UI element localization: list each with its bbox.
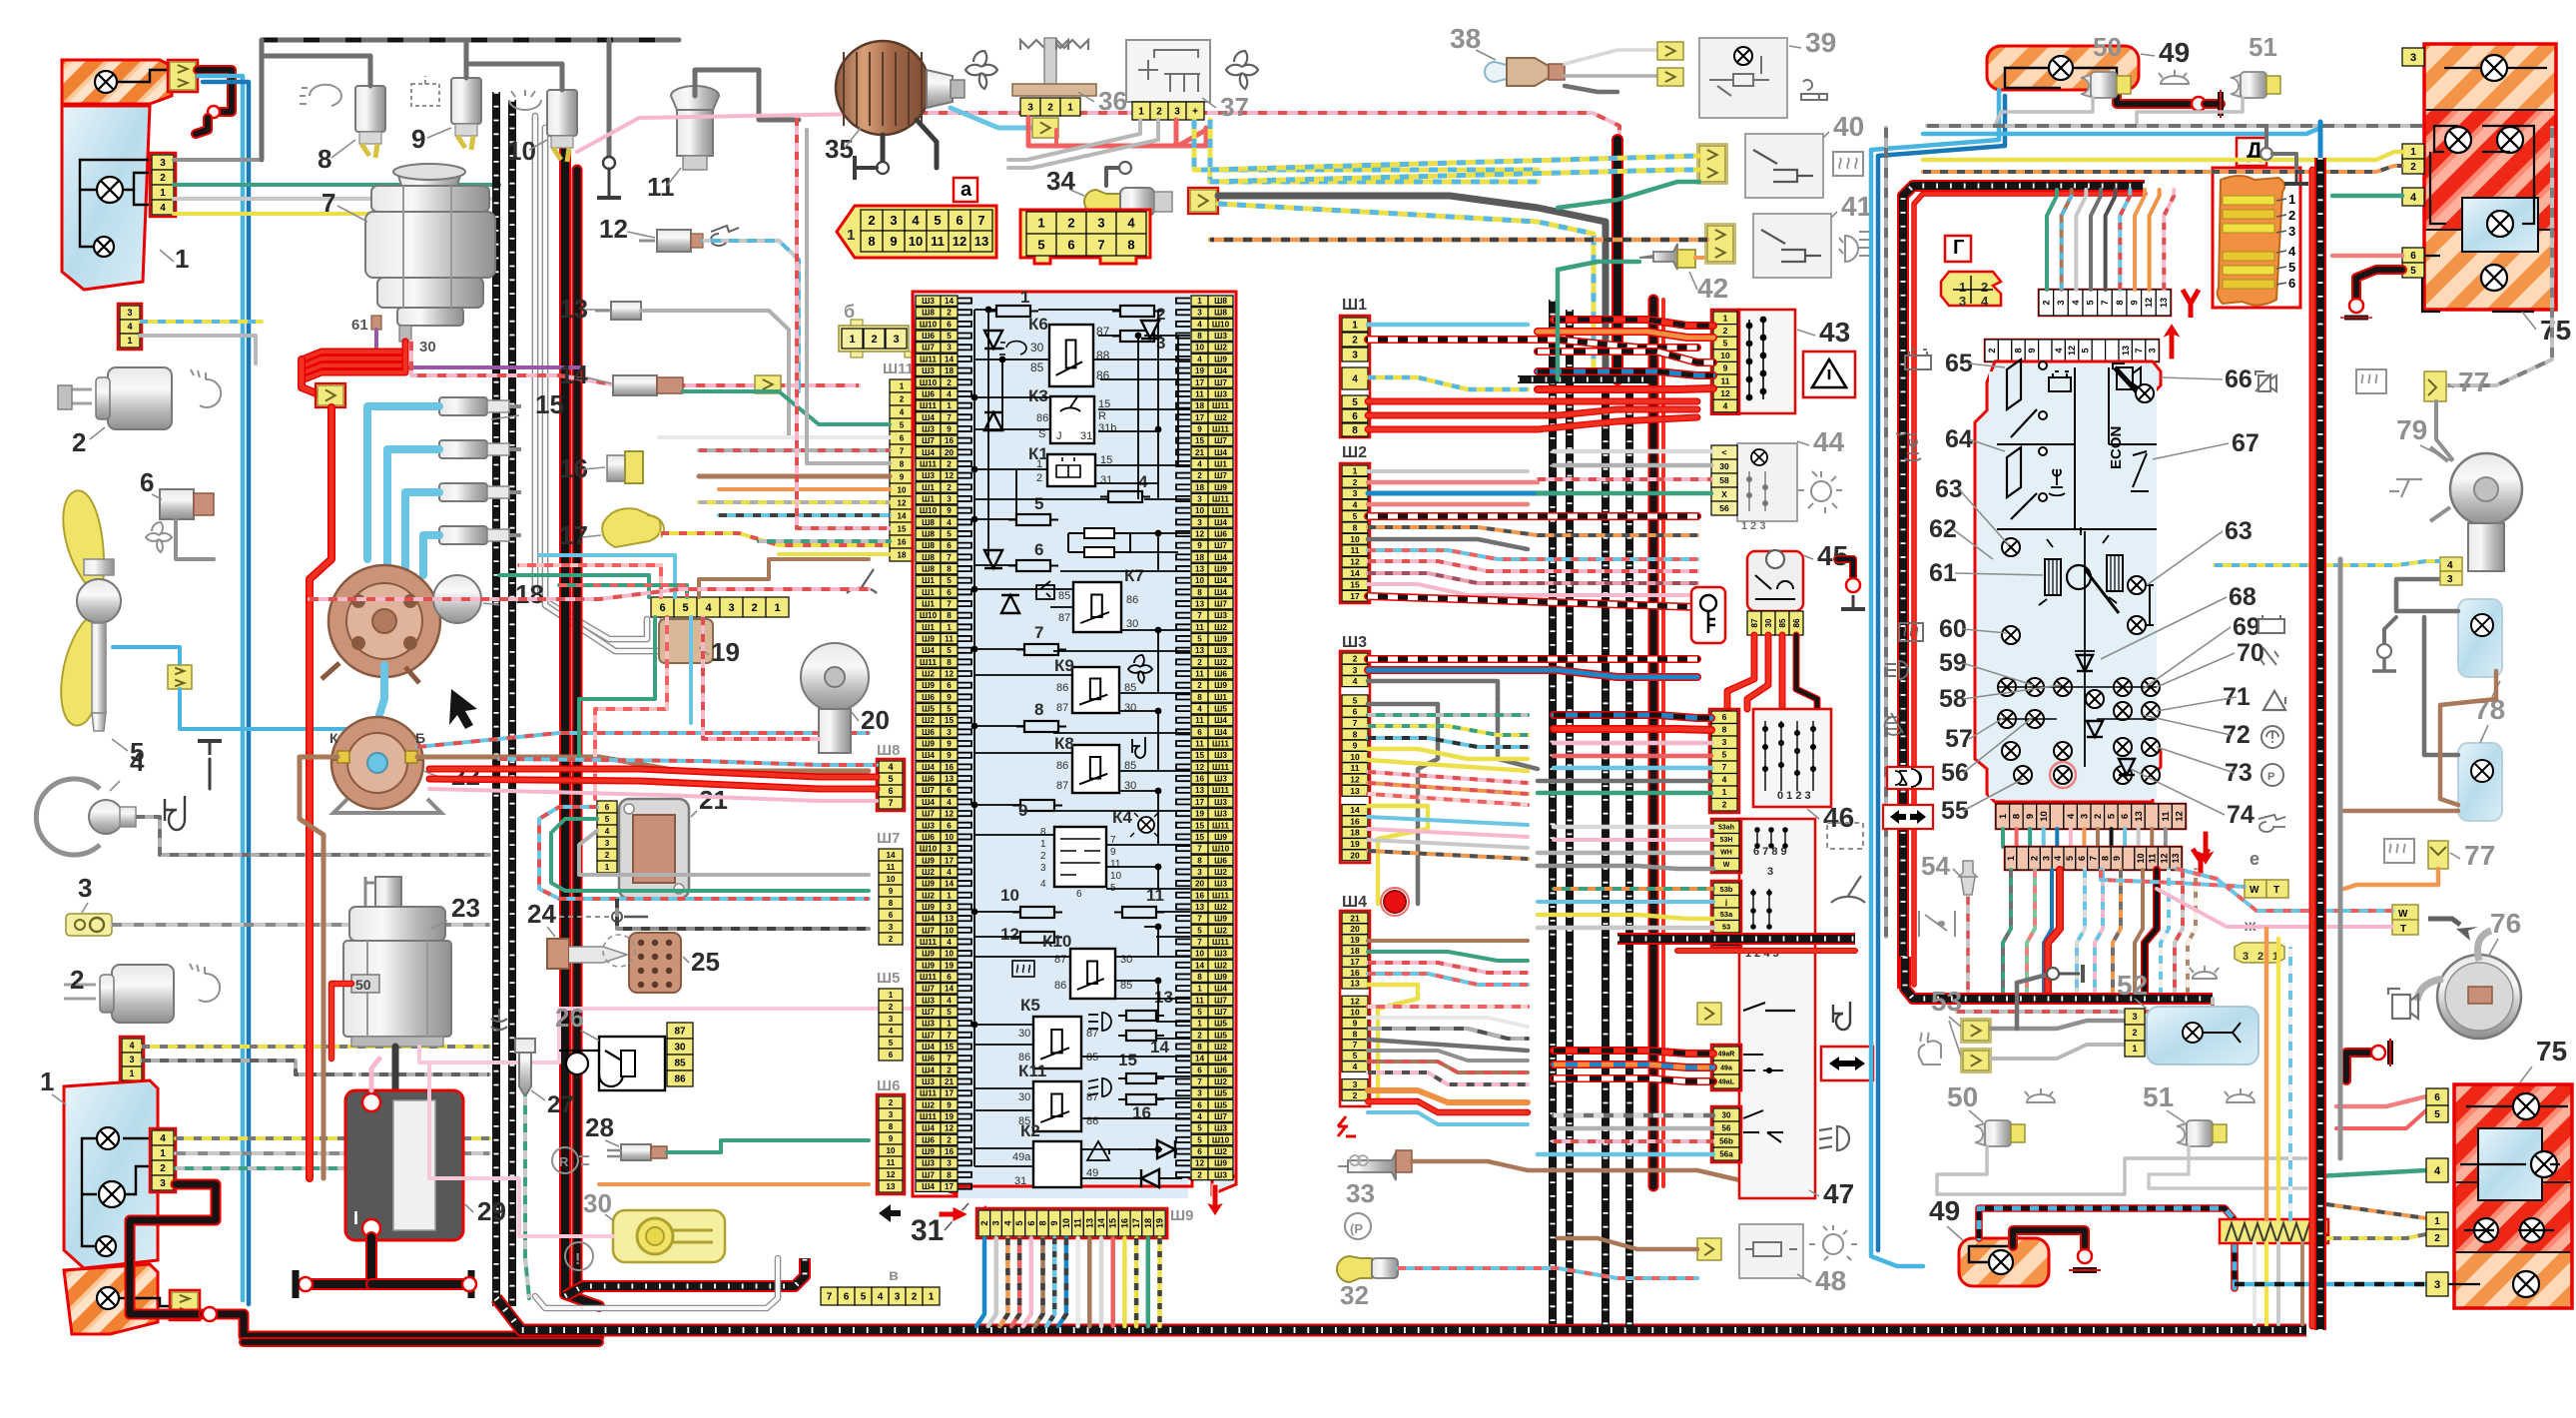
cluster diodes	[2077, 655, 2093, 671]
svg-text:X: X	[1721, 489, 1727, 499]
cluster wire harness from bottom strip down to e strip	[2001, 829, 2005, 847]
icon hazard K2	[1087, 1141, 1109, 1160]
fuse 7	[1016, 649, 1066, 651]
svg-text:Ш3: Ш3	[922, 471, 935, 480]
fog lamp 2 (top)	[108, 367, 172, 429]
svg-text:4: 4	[947, 518, 952, 527]
svg-text:Ш7: Ш7	[922, 344, 935, 353]
svg-text:7: 7	[977, 213, 984, 228]
svg-text:65: 65	[1945, 350, 1973, 377]
svg-text:18: 18	[898, 550, 907, 559]
wire into 48 brown	[1558, 1238, 1697, 1249]
svg-text:2: 2	[947, 309, 952, 318]
svg-text:4: 4	[947, 798, 952, 807]
svg-text:5: 5	[947, 576, 952, 585]
svg-text:41: 41	[1841, 191, 1872, 222]
svg-text:6: 6	[2434, 1092, 2440, 1103]
svg-text:1: 1	[1197, 1020, 1202, 1029]
svg-text:Ш7: Ш7	[922, 1170, 935, 1179]
svg-text:13: 13	[1154, 988, 1173, 1007]
47: wiper section pins	[1711, 819, 1741, 873]
svg-text:3: 3	[160, 1178, 166, 1189]
svg-text:5: 5	[2081, 348, 2091, 353]
svg-text:10: 10	[1195, 344, 1205, 353]
svg-text:31: 31	[1014, 1175, 1026, 1187]
svg-text:3: 3	[947, 494, 952, 503]
svg-text:6: 6	[140, 467, 154, 497]
svg-text:62: 62	[1929, 515, 1957, 543]
svg-text:Ш6: Ш6	[922, 728, 935, 737]
svg-text:Ш11: Ш11	[920, 1089, 937, 1098]
svg-text:21: 21	[1195, 448, 1205, 457]
svg-text:12: 12	[953, 234, 966, 249]
fuse 15	[1118, 1077, 1164, 1079]
svg-text:3: 3	[2243, 951, 2249, 963]
Y symbol right of strip	[2183, 290, 2199, 318]
svg-text:4: 4	[1127, 216, 1135, 231]
connector >> on pink wire	[755, 375, 781, 393]
wires into 75 top	[1923, 152, 2402, 160]
svg-text:7: 7	[900, 446, 905, 455]
svg-text:7: 7	[947, 1031, 952, 1040]
svg-text:6: 6	[947, 588, 952, 597]
svg-text:63: 63	[2225, 517, 2253, 545]
svg-text:Ш11: Ш11	[1212, 424, 1229, 433]
fuse 12	[1012, 937, 1062, 939]
svg-text:8: 8	[318, 144, 331, 174]
svg-text:5: 5	[1197, 635, 1202, 644]
svg-text:9: 9	[889, 1134, 894, 1143]
fuel icon + bulb 66 area	[2113, 363, 2141, 389]
svg-text:3: 3	[895, 1292, 901, 1303]
svg-text:5: 5	[947, 646, 952, 655]
svg-text:е: е	[2250, 849, 2259, 869]
svg-text:1: 1	[160, 1148, 166, 1159]
wires into 47 turn signal section (red/blue bundle)	[1554, 1051, 1713, 1054]
svg-text:5: 5	[934, 213, 941, 228]
fan icon by 37	[1226, 51, 1258, 89]
svg-text:13: 13	[974, 234, 988, 249]
svg-text:Ш11: Ш11	[1212, 821, 1229, 830]
svg-text:+: +	[351, 1067, 363, 1089]
icon headlight washer	[300, 85, 341, 106]
license plate lamp 49 (top)	[1987, 46, 2139, 90]
svg-text:5: 5	[1353, 1051, 1358, 1061]
svg-text:5: 5	[1197, 1124, 1202, 1133]
svg-text:9: 9	[947, 424, 952, 433]
pins of module 21	[597, 801, 617, 813]
svg-text:15: 15	[1195, 436, 1205, 445]
column switch 47 (outer)	[1739, 819, 1815, 1198]
svg-text:13: 13	[1350, 979, 1360, 989]
svg-text:36: 36	[1098, 86, 1127, 116]
defogger element connector (zigzag strip)	[2220, 1219, 2328, 1243]
svg-text:30: 30	[583, 1188, 612, 1218]
svg-text:15: 15	[945, 716, 955, 725]
icon wiper 47	[1831, 876, 1865, 903]
strip В (bottom)	[821, 1287, 838, 1305]
svg-text:5: 5	[1353, 511, 1358, 521]
svg-text:1: 1	[889, 991, 894, 1000]
svg-text:5: 5	[1197, 926, 1202, 935]
ignition coil wire to distributor (cyan)	[379, 665, 384, 715]
bulb holder 50 (top)	[2081, 75, 2091, 97]
wire: blower black down	[917, 120, 937, 168]
svg-text:Ш3: Ш3	[922, 1077, 935, 1086]
svg-text:10: 10	[1720, 351, 1730, 360]
wires: module 21 to right (bundle)	[539, 807, 869, 899]
svg-text:68: 68	[2229, 583, 2256, 611]
wires from Ш4	[1368, 939, 1528, 943]
svg-text:1: 1	[2132, 1044, 2137, 1054]
svg-text:70: 70	[2237, 639, 2264, 667]
svg-text:7: 7	[1197, 1077, 1202, 1086]
svg-text:3: 3	[1197, 309, 1202, 318]
svg-text:11: 11	[931, 234, 945, 249]
svg-text:Ш4: Ш4	[922, 448, 935, 457]
svg-text:W: W	[2250, 885, 2259, 896]
svg-text:31: 31	[1080, 430, 1092, 442]
headlamp unit 1 (bottom left) - headlight section	[64, 1080, 158, 1268]
svg-text:7: 7	[947, 553, 952, 562]
relay K3	[1050, 396, 1094, 443]
valve 11	[671, 86, 719, 110]
svg-text:66: 66	[2225, 365, 2253, 393]
sensor wires into strip Ш11	[683, 391, 890, 424]
electric fan 5	[63, 490, 104, 594]
svg-text:5: 5	[1034, 494, 1043, 513]
svg-text:14: 14	[1195, 1055, 1205, 1063]
svg-text:12: 12	[1350, 997, 1360, 1007]
svg-text:Ш9: Ш9	[922, 856, 935, 865]
wire: switch 3 to right, white	[112, 923, 489, 927]
svg-text:21: 21	[699, 785, 728, 815]
svg-text:4: 4	[1002, 1220, 1012, 1225]
connector X (top left)	[170, 62, 196, 90]
svg-text:Ш2: Ш2	[1342, 444, 1367, 461]
svg-text:1: 1	[900, 381, 905, 390]
svg-text:60: 60	[1939, 615, 1967, 643]
svg-text:53H: 53H	[1720, 837, 1733, 844]
svg-text:Ш9: Ш9	[922, 950, 935, 959]
svg-text:Ш2: Ш2	[1214, 1147, 1227, 1156]
svg-text:Ш7: Ш7	[922, 985, 935, 994]
svg-text:4: 4	[2447, 560, 2453, 571]
svg-text:Ш11: Ш11	[920, 658, 937, 667]
svg-text:17: 17	[1195, 413, 1205, 422]
icon reservoir	[411, 76, 439, 106]
wires right side gray verticals	[2396, 579, 2458, 611]
svg-text:5: 5	[889, 1039, 894, 1048]
svg-text:8: 8	[1040, 827, 1046, 838]
sensor 14 (coolant temp)	[613, 375, 657, 395]
connector 19 with strip	[651, 597, 674, 617]
svg-text:53b: 53b	[1720, 885, 1733, 894]
wire: red bundle from alternator 30 fanning left	[302, 342, 405, 359]
svg-text:52: 52	[2117, 970, 2148, 1001]
tail lamp unit 75 (bottom right)	[2454, 1084, 2572, 1182]
svg-text:19: 19	[711, 637, 740, 667]
cluster bulbs left column (62,60 row)	[2002, 538, 2020, 556]
junction dots fuse box	[985, 307, 992, 314]
wire: lamp 30 pink left-up	[429, 1063, 613, 1236]
fuse 2	[1112, 311, 1162, 313]
fuel sender 76	[2437, 955, 2521, 1039]
svg-text:85: 85	[1030, 360, 1044, 374]
svg-text:3: 3	[1197, 1089, 1202, 1098]
svg-text:5: 5	[1197, 1135, 1202, 1144]
svg-text:11: 11	[1721, 375, 1730, 385]
svg-text:24: 24	[527, 899, 556, 929]
svg-text:87: 87	[1056, 780, 1068, 792]
svg-text:Ш4: Ш4	[922, 413, 935, 422]
svg-text:18: 18	[1195, 483, 1205, 492]
svg-text:16: 16	[1132, 1103, 1151, 1122]
svg-text:2: 2	[1047, 103, 1053, 114]
svg-text:4: 4	[1981, 294, 1989, 309]
svg-text:Ш3: Ш3	[1214, 1124, 1227, 1133]
svg-text:9: 9	[2025, 814, 2036, 819]
svg-text:1: 1	[947, 891, 952, 900]
svg-text:Ш1: Ш1	[1342, 297, 1367, 314]
svg-text:5: 5	[2434, 1109, 2440, 1120]
svg-text:Ш1: Ш1	[922, 483, 935, 492]
svg-text:5: 5	[2288, 260, 2295, 275]
svg-text:9: 9	[411, 124, 425, 154]
svg-text:16: 16	[898, 537, 907, 546]
svg-text:<: <	[1722, 447, 1727, 457]
wire: thick black+red from bottom headlamp pin 3 down-right	[130, 1184, 216, 1314]
fuse 11	[1114, 912, 1164, 914]
wires right side to tail lamp 75 bottom	[2336, 1096, 2426, 1106]
connector strip e (salmon horizontal)	[2005, 847, 2182, 870]
svg-text:7: 7	[888, 798, 893, 808]
license plate lamp 49 (bottom)	[1959, 1238, 2049, 1286]
svg-text:20: 20	[861, 705, 890, 735]
svg-text:Ш5: Ш5	[1214, 1020, 1227, 1029]
svg-text:Ш10: Ш10	[920, 845, 938, 854]
svg-text:!: !	[575, 1251, 580, 1268]
svg-text:Ш10: Ш10	[920, 506, 938, 515]
svg-text:13: 13	[1195, 646, 1205, 655]
fuse 5	[1008, 519, 1058, 521]
wires from bottom headlamp pins	[176, 1136, 489, 1140]
svg-text:3: 3	[1197, 518, 1202, 527]
horn 4	[36, 779, 100, 855]
svg-text:0 1 2 3: 0 1 2 3	[1777, 790, 1811, 802]
svg-text:63: 63	[1935, 475, 1963, 503]
svg-text:Ш6: Ш6	[877, 1077, 900, 1094]
cigarette lighter / relay block 39	[1699, 38, 1787, 118]
svg-text:К2: К2	[1020, 1121, 1040, 1140]
svg-text:4: 4	[127, 322, 132, 332]
svg-text:7: 7	[2100, 300, 2110, 305]
svg-text:Ш9: Ш9	[1214, 354, 1227, 363]
icons right of cluster	[2255, 371, 2276, 391]
wire: yellow from pin 4	[174, 212, 496, 216]
starter 23	[375, 877, 401, 907]
sensor 24	[547, 939, 569, 969]
svg-text:6: 6	[1353, 707, 1358, 717]
svg-text:2: 2	[1040, 851, 1046, 862]
wires: teal bundle from left into strips	[499, 575, 649, 597]
relay K8	[1072, 745, 1119, 793]
svg-text:79: 79	[2396, 414, 2427, 445]
svg-text:Ш11: Ш11	[920, 1112, 937, 1121]
relay K10	[1070, 949, 1115, 999]
wire: sensor 28 (green) right	[667, 1140, 869, 1152]
wire: headlamp1 top to right (black outlined red)	[198, 70, 232, 112]
pins of 75 bottom	[2426, 1088, 2448, 1105]
svg-text:4: 4	[1138, 472, 1148, 491]
wire: sensor 27 down (green)	[525, 1096, 529, 1298]
wires red-dash cyan bundle from coil area to right	[417, 733, 869, 747]
svg-text:Ш11: Ш11	[1212, 401, 1229, 410]
svg-text:Ш7: Ш7	[1214, 378, 1227, 387]
svg-text:К: К	[329, 730, 338, 746]
svg-text:87: 87	[1056, 702, 1068, 714]
icon window lift	[1036, 581, 1054, 599]
svg-text:30: 30	[1018, 1091, 1030, 1103]
svg-text:75: 75	[2536, 1036, 2567, 1066]
svg-text:Ш7: Ш7	[922, 436, 935, 445]
svg-text:4: 4	[160, 203, 166, 214]
svg-text:5: 5	[1723, 338, 1728, 348]
svg-text:3: 3	[2410, 52, 2416, 64]
svg-text:4: 4	[947, 938, 952, 947]
svg-text:4: 4	[1353, 676, 1358, 686]
svg-text:Ш4: Ш4	[922, 1043, 935, 1052]
svg-text:3: 3	[1959, 294, 1966, 309]
svg-text:15: 15	[1195, 751, 1205, 760]
wire: brown from coil K to left and down	[300, 757, 337, 1098]
svg-text:6: 6	[605, 803, 610, 812]
wire: red from 36 to blower connector	[1028, 118, 1206, 146]
wire: sensor 6 down	[176, 519, 214, 559]
svg-text:Ш9: Ш9	[922, 740, 935, 749]
svg-text:76: 76	[2490, 908, 2521, 939]
svg-text:Ш4: Ш4	[922, 763, 935, 772]
svg-text:5: 5	[1722, 750, 1727, 760]
svg-text:Ш10: Ш10	[920, 378, 938, 387]
svg-text:12: 12	[1350, 557, 1360, 567]
svg-text:4: 4	[889, 1027, 894, 1036]
svg-text:3: 3	[1174, 107, 1180, 118]
svg-text:Ш4: Ш4	[922, 798, 935, 807]
svg-text:5: 5	[2410, 266, 2416, 277]
svg-text:Ш7: Ш7	[1214, 471, 1227, 480]
svg-text:2: 2	[751, 602, 757, 614]
switch 41	[1753, 214, 1831, 278]
svg-text:8: 8	[947, 658, 952, 667]
svg-text:3: 3	[1097, 216, 1104, 231]
svg-text:Ш4: Ш4	[1214, 716, 1227, 725]
wire: violet from 61	[376, 330, 579, 367]
svg-text:9: 9	[1018, 801, 1027, 820]
svg-text:43: 43	[1819, 317, 1850, 348]
svg-text:Ш1: Ш1	[922, 600, 935, 609]
svg-text:Ш4: Ш4	[922, 751, 935, 760]
svg-text:18: 18	[1195, 401, 1205, 410]
svg-text:49aL: 49aL	[1718, 1078, 1735, 1085]
svg-text:30: 30	[1764, 618, 1773, 627]
cyan-blackdash wire along bottom to 75	[1979, 1208, 2235, 1288]
svg-text:13: 13	[945, 775, 955, 784]
svg-text:5: 5	[1037, 238, 1044, 253]
svg-text:3: 3	[889, 1110, 894, 1119]
svg-text:2: 2	[160, 1163, 166, 1174]
svg-text:4: 4	[2288, 244, 2296, 259]
svg-text:7: 7	[1722, 762, 1727, 772]
speedometer/clock 61 62 63	[2067, 565, 2091, 589]
svg-text:11: 11	[1195, 623, 1204, 632]
temp sensor 27	[515, 1039, 535, 1096]
svg-text:2: 2	[1197, 1170, 1202, 1179]
svg-text:Ш4: Ш4	[1342, 894, 1367, 911]
svg-text:20: 20	[945, 448, 955, 457]
svg-text:Ш11: Ш11	[920, 459, 937, 468]
svg-text:4: 4	[947, 996, 952, 1005]
icon oil can	[711, 226, 741, 246]
icon washer (dashed box)	[1827, 823, 1863, 849]
svg-text:14: 14	[945, 354, 955, 363]
bulb holder 50 (bottom)	[1975, 1123, 1985, 1145]
ground post left bottom	[203, 1307, 217, 1321]
svg-text:18: 18	[1350, 946, 1360, 956]
svg-text:14: 14	[1350, 568, 1360, 578]
svg-text:Ш10: Ш10	[1212, 320, 1230, 329]
svg-text:2: 2	[947, 378, 952, 387]
svg-text:9: 9	[1049, 1220, 1059, 1225]
svg-text:8: 8	[1127, 238, 1134, 253]
svg-text:8: 8	[947, 1170, 952, 1179]
svg-text:20: 20	[1350, 850, 1360, 860]
svg-text:Ш7: Ш7	[877, 830, 900, 847]
icon 56 (red box, fog rear)	[1887, 767, 1933, 789]
svg-text:58: 58	[1719, 475, 1729, 485]
svg-text:57: 57	[1945, 725, 1973, 753]
svg-text:59: 59	[1939, 649, 1967, 677]
svg-text:30: 30	[1018, 1028, 1030, 1040]
vertical wires above zigzag (orange/yellow/cyan)	[2264, 929, 2269, 1219]
svg-text:2: 2	[1987, 348, 1997, 353]
relay K6	[1049, 325, 1093, 386]
svg-text:9: 9	[1197, 541, 1202, 550]
black hook ground at 75 top	[2356, 270, 2402, 300]
svg-text:12: 12	[2159, 853, 2169, 863]
svg-text:4: 4	[1040, 879, 1046, 890]
fuse 4	[1100, 496, 1150, 498]
fuse 13	[1118, 1015, 1164, 1017]
svg-text:5: 5	[861, 1292, 867, 1303]
svg-text:30: 30	[1120, 954, 1132, 966]
svg-text:Ш2: Ш2	[1214, 926, 1227, 935]
svg-text:2: 2	[72, 427, 86, 457]
wires from Ш1	[1368, 323, 1528, 328]
icon headlight-washer K6	[999, 342, 1026, 354]
svg-text:3: 3	[2080, 814, 2091, 819]
svg-text:6: 6	[2288, 276, 2295, 291]
svg-text:11: 11	[1195, 740, 1204, 749]
svg-text:8: 8	[1352, 425, 1358, 436]
svg-text:Ш3: Ш3	[1214, 880, 1227, 889]
svg-text:14: 14	[887, 851, 896, 860]
fuse 3	[1112, 336, 1162, 338]
svg-text:8: 8	[2012, 814, 2023, 819]
svg-text:3: 3	[1197, 494, 1202, 503]
svg-text:11: 11	[887, 863, 896, 872]
svg-text:85: 85	[1086, 1052, 1098, 1063]
